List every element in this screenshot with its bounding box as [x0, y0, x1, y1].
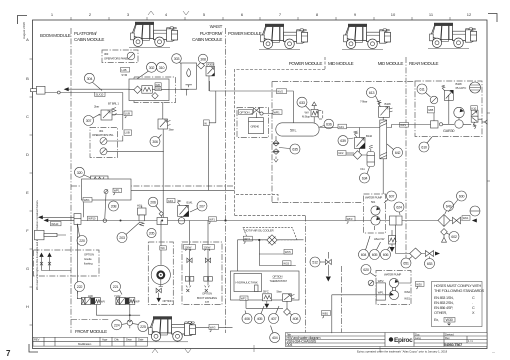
svg-text:303: 303: [104, 52, 109, 56]
svg-text:611: 611: [419, 88, 424, 92]
svg-text:M.Stop: M.Stop: [302, 115, 311, 119]
node open circle: [57, 91, 60, 94]
machine icon front module: [147, 316, 196, 342]
svg-text:306: 306: [152, 140, 158, 144]
svg-text:5bar: 5bar: [277, 290, 282, 294]
svg-text:D: D: [26, 152, 29, 157]
svg-text:H10: H10: [137, 204, 142, 208]
svg-text:620: 620: [363, 268, 369, 272]
label LUB SYM panel: [124, 130, 132, 135]
svg-text:YH12: YH12: [114, 294, 121, 298]
svg-text:B108: B108: [385, 102, 392, 106]
ref 639: [338, 136, 354, 146]
label WC2: [243, 236, 252, 243]
pressure valve 2bar: [94, 102, 119, 121]
svg-text:SLX10: SLX10: [96, 93, 104, 97]
svg-text:205: 205: [149, 232, 155, 236]
check bowtie out: [453, 217, 461, 223]
hydraulic tank: [234, 274, 262, 292]
valve B142: [354, 128, 373, 153]
svg-text:200W: 200W: [204, 245, 211, 249]
svg-text:607: 607: [389, 195, 395, 199]
junction block: [431, 121, 439, 128]
svg-text:NOT IF AIR OIL COOLER: NOT IF AIR OIL COOLER: [245, 229, 274, 233]
cooler diamond: [267, 235, 277, 245]
gauge wp2: [368, 280, 374, 286]
valve block 302/310: [129, 77, 176, 103]
ruler ticks top: [71, 17, 450, 20]
oil reservoir 303: [181, 63, 197, 89]
module labels: [40, 24, 439, 334]
relief 5bar: [277, 290, 295, 302]
svg-text:613: 613: [369, 91, 375, 95]
svg-text:OTHER,: OTHER,: [434, 311, 447, 315]
svg-text:WATER PUMP: WATER PUMP: [365, 196, 382, 200]
svg-text:50 L: 50 L: [290, 129, 297, 133]
svg-text:10: 10: [391, 12, 396, 17]
svg-text:310: 310: [159, 66, 165, 70]
ref 302: [147, 62, 157, 72]
valve H10: [137, 204, 146, 226]
svg-text:653: 653: [427, 262, 433, 266]
svg-text:WAIST: WAIST: [210, 24, 223, 29]
svg-text:REAR MODULE: REAR MODULE: [409, 61, 439, 66]
svg-text:405: 405: [257, 317, 263, 321]
svg-text:624: 624: [396, 206, 402, 210]
fan drain valve: [156, 285, 172, 303]
svg-text:303: 303: [174, 57, 180, 61]
label WF3: [346, 216, 355, 223]
valve A300: [206, 63, 215, 76]
svg-text:BT BRL 1: BT BRL 1: [108, 102, 119, 106]
boot wash solenoid A: [185, 249, 194, 292]
tank 50L: [276, 123, 319, 136]
air oil cooler callout: [243, 227, 297, 240]
ref 607: [384, 191, 397, 203]
hoses standards box: [432, 282, 485, 327]
svg-text:WC6: WC6: [283, 261, 289, 265]
svg-text:221: 221: [113, 285, 119, 289]
svg-text:WP1: WP1: [114, 189, 120, 193]
svg-text:Epiroc: Epiroc: [394, 337, 413, 344]
wire boom feed: [45, 89, 131, 92]
svg-text:A: A: [26, 37, 29, 42]
svg-text:WC: WC: [160, 246, 164, 250]
wire front module hose: [196, 326, 233, 328]
design thermostat label: [270, 275, 288, 284]
wire feed to tank: [210, 91, 294, 123]
ref 651: [401, 257, 412, 269]
svg-text:633: 633: [299, 101, 305, 105]
label 100W: [184, 245, 196, 251]
pump circle: [454, 107, 464, 117]
ref 220: [77, 224, 87, 246]
ref 633: [297, 97, 310, 110]
main water line: [77, 221, 461, 297]
svg-text:224: 224: [114, 323, 120, 327]
svg-text:WA3: WA3: [210, 325, 216, 329]
svg-text:004: 004: [287, 343, 293, 347]
ref 604: [359, 236, 371, 260]
boot wash solenoid B: [204, 249, 213, 292]
svg-text:WB1: WB1: [322, 311, 328, 315]
svg-text:GAR30: GAR30: [443, 129, 454, 133]
svg-text:B142: B142: [366, 134, 373, 138]
svg-text:MID MODULE: MID MODULE: [328, 61, 354, 66]
svg-text:GB8: GB8: [428, 108, 434, 112]
option GRE40 box: [237, 108, 273, 138]
svg-text:225: 225: [140, 325, 146, 329]
ref 404: [270, 326, 280, 343]
ruler ticks right: [487, 113, 490, 181]
svg-text:636: 636: [326, 123, 332, 127]
label WR1: [273, 110, 282, 115]
svg-text:POWER MODULE: POWER MODULE: [289, 61, 323, 66]
ref 600: [448, 191, 467, 212]
wire mid column: [162, 129, 164, 221]
svg-text:OPTION: OPTION: [163, 299, 173, 303]
svg-text:August 2018: August 2018: [22, 22, 26, 39]
ref 606: [381, 247, 391, 260]
svg-text:302: 302: [149, 66, 155, 70]
svg-text:Modification: Modification: [78, 342, 92, 346]
svg-text:WR1: WR1: [274, 110, 280, 114]
gauge: [430, 96, 438, 104]
bowtie 653: [426, 251, 441, 257]
svg-text:Chk: Chk: [114, 338, 119, 342]
valve drain wires: [96, 305, 140, 321]
svg-text:605: 605: [372, 253, 378, 257]
svg-text:408: 408: [293, 317, 299, 321]
ref 408: [289, 313, 300, 324]
junction box right: [390, 216, 403, 225]
svg-text:04060-T567: 04060-T567: [444, 343, 462, 347]
ref 310: [137, 62, 167, 79]
breather symbol: [178, 213, 185, 224]
svg-text:WC2: WC2: [244, 237, 250, 241]
ruler ticks left: [30, 59, 33, 325]
svg-text:REV: REV: [34, 338, 40, 342]
svg-text:407: 407: [271, 317, 277, 321]
svg-text:643: 643: [446, 205, 452, 209]
boot washing kit box: [182, 242, 222, 305]
svg-text:206: 206: [150, 201, 156, 205]
svg-text:OPTION: OPTION: [273, 275, 283, 279]
label WP1r: [400, 123, 409, 128]
solenoid valve YH12: [114, 294, 140, 305]
wire cabin down: [111, 81, 216, 190]
svg-text:A300: A300: [208, 63, 215, 67]
module separator dashdot x=71: [70, 28, 72, 333]
svg-text:222: 222: [77, 285, 83, 289]
svg-text:WP: WP: [135, 300, 139, 304]
svg-text:LUB: LUB: [125, 130, 130, 134]
valve B141: [178, 200, 194, 217]
flow arrow left: [64, 87, 69, 91]
svg-text:642: 642: [395, 151, 401, 155]
svg-text:__: __: [491, 350, 495, 353]
label WF1: [209, 217, 217, 224]
svg-text:EN 856 4SP,: EN 856 4SP,: [434, 306, 453, 310]
svg-text:EN 853 2SN,: EN 853 2SN,: [434, 301, 454, 305]
svg-text:203: 203: [119, 236, 125, 240]
svg-text:H6onVW: H6onVW: [374, 237, 385, 241]
svg-text:OPERATORS PANEL: OPERATORS PANEL: [104, 57, 129, 61]
label WC0: [160, 246, 167, 250]
svg-text:600: 600: [459, 195, 465, 199]
svg-text:CABIN MODULE: CABIN MODULE: [74, 37, 104, 42]
svg-text:POWER MODULE: POWER MODULE: [228, 31, 262, 36]
radiator fan: [470, 82, 481, 93]
svg-text:FRONT MODULE: FRONT MODULE: [75, 329, 107, 334]
svg-text:220: 220: [79, 239, 85, 243]
ref 221: [111, 282, 123, 295]
coupling front: [35, 230, 58, 240]
label WC6: [283, 261, 292, 266]
return arrows left: [38, 215, 43, 219]
svg-text:7: 7: [6, 349, 11, 358]
svg-text:Ex,: Ex,: [434, 318, 439, 322]
label WA3: [209, 324, 219, 332]
gredle flushing box: [34, 250, 100, 276]
svg-text:flushing: flushing: [84, 262, 93, 266]
label WV1: [204, 120, 210, 126]
ref 512: [310, 257, 326, 267]
wire gar30 out: [482, 121, 485, 123]
ref 303: [172, 54, 183, 66]
label WA1: [462, 216, 470, 221]
breather 225: [127, 320, 132, 328]
wire tank out: [274, 128, 380, 163]
svg-text:PLATFORM/: PLATFORM/: [74, 31, 97, 36]
svg-text:207: 207: [199, 205, 205, 209]
svg-text:304: 304: [87, 77, 93, 81]
svg-text:WV: WV: [101, 300, 105, 304]
label WP1b: [83, 198, 92, 203]
svg-text:320: 320: [77, 171, 83, 175]
heater W box: [91, 176, 109, 183]
svg-text:WP10: WP10: [88, 217, 96, 221]
fan option box: [148, 242, 173, 305]
cooler option dashed corner: [236, 195, 278, 203]
expansion diamond 651: [396, 225, 425, 259]
svg-text:B141: B141: [187, 201, 194, 205]
svg-text:WA10: WA10: [51, 222, 59, 226]
relief valve 3bar: [158, 119, 174, 132]
ref 611: [417, 84, 427, 94]
svg-text:W30: W30: [416, 282, 422, 286]
label GB8: [427, 107, 434, 113]
main title block: [286, 332, 488, 347]
operators panel box 2: [90, 127, 164, 157]
module separator dashdot mid/rear x=406: [405, 57, 407, 268]
junction box 220: [74, 214, 81, 225]
wire fan feed: [160, 221, 162, 265]
check diamond: [198, 62, 205, 69]
svg-text:GF4: GF4: [168, 199, 174, 203]
svg-text:C20: C20: [156, 87, 161, 91]
svg-text:1 / 1: 1 / 1: [468, 339, 473, 343]
svg-text:WATER PUMP: WATER PUMP: [384, 273, 401, 277]
label 200W: [203, 245, 215, 251]
label WP1a: [113, 188, 122, 195]
junction dots: [77, 219, 226, 223]
washer enclosure: [82, 179, 132, 200]
svg-text:EN 853 1SN,: EN 853 1SN,: [434, 296, 454, 300]
label WB1: [322, 311, 331, 319]
ref 206: [148, 197, 160, 211]
machine icon top 1: [129, 22, 178, 48]
module separator dashed power/mid: [235, 57, 326, 216]
svg-text:THE FOLLOWING STANDARDS: THE FOLLOWING STANDARDS: [434, 289, 485, 293]
wire block to reservoir: [169, 76, 209, 96]
svg-text:WF1: WF1: [209, 217, 215, 221]
svg-text:65-120°C: 65-120°C: [456, 86, 467, 90]
check valves tank drain: [273, 141, 279, 155]
drain arrow thermo: [264, 304, 269, 309]
pump diamond 634: [346, 151, 362, 160]
svg-text:HYDRAULIC TANK: HYDRAULIC TANK: [236, 281, 258, 285]
svg-text:406: 406: [244, 317, 250, 321]
svg-text:GF1: GF1: [339, 125, 345, 129]
svg-text:WP1: WP1: [400, 123, 406, 127]
node 206: [159, 212, 163, 216]
ref 635: [279, 144, 300, 154]
svg-text:3bar: 3bar: [169, 128, 174, 132]
junction dot cooler: [258, 239, 260, 241]
gauge 600: [470, 206, 480, 216]
ref 610: [419, 137, 432, 152]
relief 7-9bar: [360, 100, 393, 118]
label WF2: [240, 296, 248, 301]
ref 222: [75, 282, 85, 295]
svg-text:WS2: WS2: [404, 290, 410, 294]
module boundary bottom area: [306, 216, 342, 334]
svg-text:WD1: WD1: [84, 198, 90, 202]
water pump 2 box: [376, 271, 411, 305]
svg-text:602: 602: [451, 235, 457, 239]
svg-text:WP1: WP1: [378, 291, 384, 295]
svg-text:7-9bar: 7-9bar: [360, 100, 367, 104]
svg-text:OPERATORS PNL: OPERATORS PNL: [92, 133, 114, 137]
hydraulic fan: [151, 265, 170, 285]
svg-text:H30: H30: [88, 294, 93, 298]
manifold column: [380, 117, 387, 194]
ref 203: [117, 222, 140, 243]
label W30: [416, 281, 425, 289]
svg-text:LUB: LUB: [121, 68, 126, 72]
label GF1: [338, 124, 347, 129]
small diamond 603: [441, 229, 448, 243]
label WA1L: [51, 221, 62, 226]
row letters left: [26, 37, 29, 309]
svg-text:610: 610: [421, 146, 427, 150]
boundary dashdot mid horizontal: [71, 185, 235, 187]
svg-text:WA1: WA1: [463, 216, 469, 220]
ref 407: [269, 306, 279, 324]
node small: [103, 219, 106, 222]
svg-text:LUB: LUB: [125, 112, 130, 116]
ref 653: [425, 257, 435, 269]
svg-text:F11: F11: [361, 167, 366, 171]
svg-text:308: 308: [200, 57, 206, 61]
ref 405: [255, 306, 265, 324]
ref 225: [133, 322, 148, 332]
ref 205: [147, 228, 156, 237]
module separator dashdot x=225: [225, 28, 227, 333]
svg-text:OPTION: OPTION: [240, 111, 250, 115]
heater H6onVW: [374, 230, 396, 252]
svg-text:GF2: GF2: [338, 151, 344, 155]
svg-text:651: 651: [403, 262, 409, 266]
svg-text:Appr: Appr: [102, 338, 108, 342]
ref 642: [387, 144, 403, 158]
svg-text:B: B: [26, 76, 29, 81]
wire washer line: [105, 190, 235, 218]
supply arrow out: [472, 219, 477, 223]
svg-text:H: H: [26, 304, 29, 309]
svg-text:C: C: [26, 114, 29, 119]
ref 208: [109, 201, 119, 211]
port arrow right: [485, 120, 488, 124]
module separator dashdot mid2: [272, 82, 415, 203]
ref 613: [367, 88, 381, 105]
svg-text:Epiroc operated under the trad: Epiroc operated under the trademark “Atl…: [357, 349, 448, 353]
ref 306: [150, 135, 162, 147]
svg-text:100W: 100W: [185, 245, 192, 249]
svg-text:WP2: WP2: [378, 279, 384, 283]
revision marks top: [148, 11, 189, 15]
ref 320: [75, 167, 92, 178]
boot washing feeds: [190, 221, 209, 246]
wire return lines: [43, 202, 84, 235]
machine icon top 2: [259, 24, 308, 50]
svg-text:We reserve all rights in this: We reserve all rights in this document a…: [35, 200, 39, 290]
svg-text:634: 634: [362, 177, 368, 181]
svg-text:Lang: Lang: [415, 336, 421, 340]
title block left revision table: [33, 337, 148, 346]
svg-text:PLATFORM/: PLATFORM/: [200, 31, 223, 36]
svg-text:307: 307: [86, 119, 92, 123]
valve M.Stop: [302, 102, 323, 123]
svg-text:635: 635: [292, 148, 298, 152]
front module boundary segment: [71, 319, 110, 321]
machine icon top 3: [342, 24, 391, 50]
motor circle: [455, 120, 463, 128]
epiroc logo: [389, 337, 413, 344]
svg-text:12: 12: [467, 12, 472, 17]
label WP10: [88, 216, 98, 221]
filter F11: [361, 145, 375, 171]
mixer diamond: [438, 214, 450, 226]
thermostat piping: [246, 300, 287, 308]
ref 641: [444, 201, 454, 214]
ref 304: [84, 73, 102, 90]
label SLX10: [95, 92, 105, 96]
svg-text:404: 404: [272, 336, 278, 340]
svg-text:Rev: Rev: [445, 336, 450, 340]
svg-text:E: E: [26, 190, 29, 195]
svg-text:208: 208: [111, 205, 117, 209]
svg-text:SYM: SYM: [121, 73, 127, 77]
ref 620: [361, 265, 376, 277]
water pump 1 box: [364, 194, 386, 233]
ref 307: [84, 114, 101, 126]
svg-text:OPTION: OPTION: [84, 253, 94, 257]
svg-text:K10: K10: [472, 106, 477, 110]
ref 406: [242, 311, 252, 324]
svg-text:BOOM MODULE: BOOM MODULE: [40, 33, 71, 38]
